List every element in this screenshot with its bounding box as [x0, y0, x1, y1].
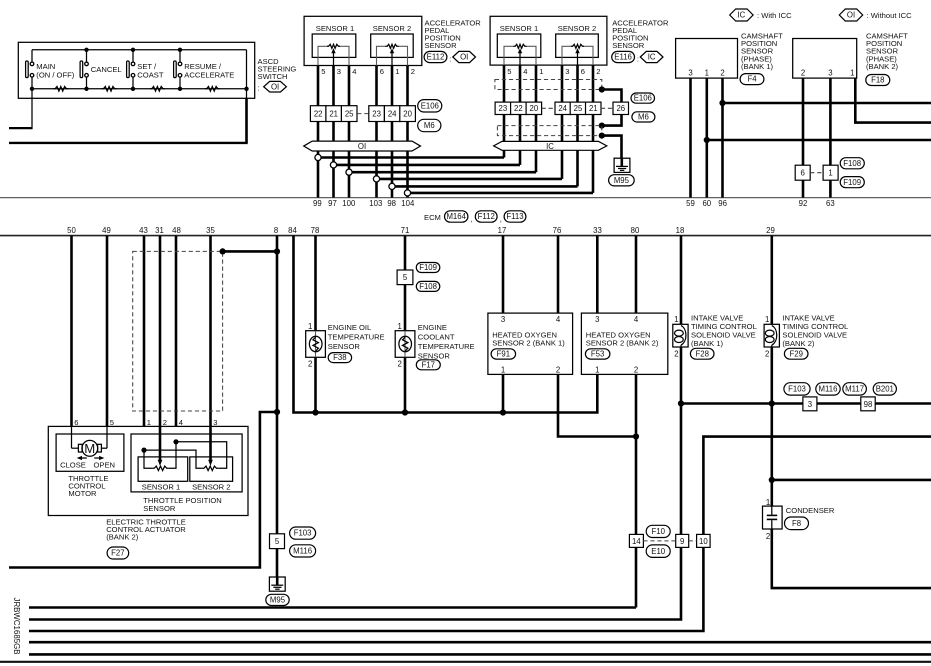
TPS supply wiring pins 1 and 4 [141, 439, 226, 468]
ECM top-row pin numbers [313, 199, 835, 208]
svg-text:25: 25 [574, 104, 583, 113]
wire F53 pin 2 down to stack line [633, 374, 639, 607]
svg-text:5: 5 [403, 273, 408, 282]
svg-text:F103: F103 [788, 385, 806, 394]
ECM upper boundary line [0, 197, 931, 199]
svg-text:1: 1 [395, 67, 399, 76]
svg-text::: : [449, 54, 451, 63]
svg-text:CLOSE: CLOSE [60, 461, 86, 470]
svg-text:OI: OI [847, 11, 855, 20]
F4 oval label [740, 74, 764, 85]
wire from MAIN switch to left edge [9, 89, 32, 129]
svg-text:3: 3 [565, 67, 569, 76]
F53 oval label [585, 349, 610, 359]
TPS sensor 2 box [190, 457, 233, 481]
svg-text:20: 20 [530, 104, 539, 113]
svg-text:F108: F108 [843, 159, 861, 168]
accelerator pedal position sensor E112 box [304, 16, 422, 65]
F109 oval label [416, 263, 440, 273]
ELECTRIC THROTTLE CONTROL ACTUATOR label [106, 517, 186, 541]
wire F4 pin 1 to ECM 60 with branch right [704, 78, 931, 198]
THROTTLE CONTROL MOTOR label [68, 474, 108, 498]
svg-text:48: 48 [172, 226, 181, 235]
svg-text:B201: B201 [876, 385, 894, 394]
potentiometer sensor 1 of E112 (pins 5,3,4) [318, 44, 349, 65]
svg-text:2: 2 [766, 532, 770, 541]
ACCELERATOR PEDAL POSITION SENSOR label (E112) [425, 18, 482, 50]
svg-text:F112: F112 [478, 212, 495, 221]
connector row (E116 side), pins 23 22 20 24 25 21 [495, 102, 613, 114]
svg-text:SENSOR 2 (BANK 2): SENSOR 2 (BANK 2) [586, 338, 659, 347]
E10 oval label [646, 545, 670, 558]
svg-text:2: 2 [556, 366, 560, 375]
svg-text:17: 17 [498, 226, 507, 235]
solenoid return wire to right edge through connectors 3 and 98 [681, 402, 931, 405]
svg-text:103: 103 [369, 199, 382, 208]
legend OI hexagon : Without ICC [839, 9, 912, 21]
svg-text:6: 6 [380, 67, 384, 76]
svg-text:2: 2 [398, 359, 402, 368]
camshaft position sensor (phase) bank 1 box F4 [676, 39, 738, 79]
ECM lower boundary line [0, 235, 931, 237]
svg-text:1: 1 [539, 67, 543, 76]
ground symbol (M95 top) [614, 158, 630, 172]
svg-text:F109: F109 [843, 178, 861, 187]
wire ECM 71 to engine coolant temperature sensor [404, 236, 407, 413]
svg-text:2: 2 [720, 69, 724, 78]
svg-text:1: 1 [828, 169, 832, 178]
svg-text:18: 18 [676, 226, 685, 235]
svg-text:SENSOR 2: SENSOR 2 [192, 482, 230, 491]
connector square pin 26 [613, 102, 629, 114]
svg-text:M164: M164 [446, 212, 466, 221]
wire F18 pin 3 to ECM 63 through connector 1 [829, 78, 832, 198]
RESUME/ACCELERATE switch SW4 [174, 50, 235, 89]
wires ECM 50 49 43 31 48 35 down to throttle actuator [72, 236, 211, 427]
svg-text:CONDENSER: CONDENSER [786, 506, 835, 515]
svg-text:43: 43 [139, 226, 148, 235]
connector square 6 (F108/F109) [795, 165, 810, 180]
svg-text:F29: F29 [789, 349, 802, 358]
engine coolant temperature sensor F17 [395, 322, 415, 368]
svg-text:22: 22 [514, 104, 523, 113]
svg-text:M95: M95 [270, 596, 286, 605]
svg-text:ENGINE OIL: ENGINE OIL [328, 323, 371, 332]
IC hexagon tag for E116 [640, 51, 663, 62]
F8 oval label [785, 517, 809, 530]
wire F4 pin 2 to ECM 96 with branch right [719, 78, 931, 198]
svg-text:M116: M116 [819, 385, 838, 394]
svg-text:2: 2 [765, 350, 769, 359]
ASCD bottom rail wire [32, 88, 247, 90]
wire line from right edge down through connector 10 [703, 437, 931, 535]
svg-text:M6: M6 [424, 121, 435, 130]
svg-text:4: 4 [179, 418, 183, 427]
condenser ground wire to right edge [772, 529, 931, 588]
wire F18 pin 1 going right [855, 78, 931, 123]
svg-text:E106: E106 [421, 101, 439, 110]
TPS sensor 1 resistor [152, 466, 169, 470]
potentiometer sensor 2 of E116 (pins 3,6,2) [562, 44, 593, 65]
dashed link 14-9 [643, 540, 675, 542]
svg-text:OI: OI [271, 82, 279, 91]
CANCEL switch SW2 [80, 50, 122, 89]
wire ECM 18 to intake valve timing solenoid bank1 [678, 236, 684, 535]
camshaft position sensor (phase) bank 2 box F18 [793, 39, 857, 79]
condenser branch to right edge [772, 479, 931, 482]
svg-text:,: , [470, 215, 472, 224]
svg-text:F17: F17 [422, 360, 435, 369]
svg-text:OPEN: OPEN [94, 461, 116, 470]
svg-text:71: 71 [401, 226, 410, 235]
INTAKE VALVE TIMING CONTROL SOLENOID VALVE (BANK 2) label [782, 313, 848, 348]
connector square 14 [629, 534, 643, 547]
svg-text:78: 78 [311, 226, 320, 235]
svg-text:F38: F38 [333, 353, 346, 362]
svg-text:CANCEL: CANCEL [91, 65, 122, 74]
svg-text:3: 3 [595, 315, 599, 324]
sensor 2 sub-box (E116) [556, 34, 599, 57]
svg-text:IC: IC [546, 142, 554, 151]
svg-text:21: 21 [329, 110, 338, 119]
CONDENSER label [786, 506, 835, 515]
svg-text:1: 1 [850, 69, 854, 78]
svg-text:F91: F91 [497, 350, 510, 359]
svg-text:5: 5 [507, 67, 511, 76]
F17 oval label [416, 360, 440, 370]
TPS sensor 1 wiper arrow (pin 2) [158, 426, 163, 466]
svg-text:TEMPERATURE: TEMPERATURE [328, 333, 385, 342]
F27 oval label [107, 547, 129, 559]
connector square 5 (F108/F109) [397, 270, 413, 285]
shield drain wire to ground wire 8 [220, 248, 281, 254]
svg-text:3: 3 [828, 69, 832, 78]
svg-text:1: 1 [308, 322, 312, 331]
svg-text:(BANK 1): (BANK 1) [691, 339, 724, 348]
F108 oval label [840, 158, 864, 169]
svg-text:F28: F28 [695, 349, 708, 358]
F28 oval label [690, 348, 714, 359]
svg-text:5: 5 [110, 418, 114, 427]
svg-text:SENSOR: SENSOR [425, 41, 458, 50]
M6 oval label (E116 side) [632, 112, 655, 122]
full-width stack line A [29, 641, 931, 644]
svg-text:F8: F8 [792, 519, 801, 528]
svg-text:M: M [84, 441, 95, 456]
svg-text:92: 92 [799, 199, 808, 208]
potentiometer sensor 2 of E112 (pins 6,1,2) [377, 44, 408, 65]
svg-text:SENSOR 2: SENSOR 2 [558, 24, 596, 33]
dashed link 9-10 [689, 540, 697, 542]
connector square 9 [676, 534, 689, 547]
svg-text:,: , [500, 215, 502, 224]
ENGINE COOLANT TEMPERATURE SENSOR label [418, 323, 475, 360]
OI harness band arrow [304, 141, 421, 151]
connector square 5 (F103/M116) [270, 534, 285, 549]
svg-text:F4: F4 [747, 75, 757, 84]
throttle control motor box [56, 434, 124, 471]
E106 oval label [418, 100, 442, 112]
svg-text:4: 4 [352, 67, 356, 76]
M117 oval label [843, 383, 867, 395]
F103 oval label (ground) [290, 527, 316, 539]
shield wire from dashed box to pin 26 and back [599, 86, 622, 128]
wires from E116 pins down through IC band [504, 65, 593, 193]
TPS sensor 2 resistor [202, 466, 219, 470]
svg-text:20: 20 [403, 110, 412, 119]
ASCD steering switch outer box [18, 42, 254, 98]
OI hexagon tag for ASCD switch [264, 81, 287, 92]
svg-text:IC: IC [648, 53, 656, 62]
F108 oval label [416, 281, 440, 291]
heated oxygen sensor 2 bank 1 box F91 [488, 313, 573, 375]
svg-text:: Without ICC: : Without ICC [867, 11, 913, 20]
wire stack line from connector 9 [29, 547, 681, 619]
svg-text:M6: M6 [638, 113, 649, 122]
svg-text:F113: F113 [506, 212, 523, 221]
SENSOR 1 / SENSOR 2 labels [142, 482, 231, 491]
stair wires joining IC harness to OI wires [318, 158, 593, 193]
svg-text:ENGINE: ENGINE [418, 323, 447, 332]
E112 connector oval [424, 51, 451, 63]
svg-text:(BANK 2): (BANK 2) [782, 339, 815, 348]
M6 oval label [418, 119, 441, 131]
svg-text:ECM: ECM [424, 213, 441, 222]
svg-text:1: 1 [766, 498, 770, 507]
svg-text:F18: F18 [871, 76, 884, 85]
throttle control motor M [72, 426, 108, 456]
TPS sensor 2 wiper arrow (pin 3) [208, 426, 213, 466]
svg-text:E106: E106 [634, 94, 652, 103]
svg-text:76: 76 [553, 226, 562, 235]
svg-text:80: 80 [631, 226, 640, 235]
svg-text:F103: F103 [294, 529, 312, 538]
F10 oval label [646, 525, 670, 537]
ASCD STEERING SWITCH label [257, 57, 296, 93]
svg-text:SENSOR 2: SENSOR 2 [373, 24, 411, 33]
CAMSHAFT POSITION SENSOR (PHASE)(BANK 2) label [866, 31, 908, 71]
svg-text:F53: F53 [591, 350, 604, 359]
OI hexagon tag for E112 [453, 51, 476, 62]
svg-text:3: 3 [337, 67, 341, 76]
svg-text:1: 1 [674, 315, 678, 324]
svg-text:84: 84 [288, 226, 297, 235]
svg-text:22: 22 [314, 110, 323, 119]
svg-text:8: 8 [274, 226, 278, 235]
wire ECM 80 to HO2S bank2 pin 4 [635, 236, 638, 314]
shielded-harness dashed box upper (E116) [495, 80, 602, 90]
svg-text:3: 3 [688, 69, 692, 78]
sensor 2 sub-box (E112) [371, 34, 414, 57]
svg-text:25: 25 [345, 110, 354, 119]
wire F91 pin 1 to sensor ground bus [502, 374, 505, 412]
heated oxygen sensor 2 bank 2 box F53 [581, 313, 667, 375]
svg-text:F109: F109 [419, 263, 437, 272]
wire from ASCD switch right side to left edge [9, 50, 248, 143]
svg-text:2: 2 [674, 350, 678, 359]
INTAKE VALVE TIMING CONTROL SOLENOID VALVE (BANK 1) label [691, 313, 757, 348]
shield drain wire to ground [599, 133, 622, 159]
svg-text:60: 60 [702, 199, 711, 208]
svg-text:3: 3 [808, 400, 812, 409]
E116 pin number labels 5 4 1 3 6 2 [507, 67, 600, 76]
svg-text:4: 4 [634, 315, 639, 324]
connector square 3 [803, 397, 817, 411]
ground symbol (M95 bottom) [269, 577, 285, 591]
svg-text:E10: E10 [651, 547, 666, 556]
M95 oval label (bottom) [266, 594, 289, 605]
ECM bottom-row pin numbers [67, 226, 775, 235]
accelerator pedal position sensor E116 box [490, 16, 607, 65]
svg-text:M95: M95 [614, 176, 630, 185]
CAMSHAFT POSITION SENSOR (PHASE)(BANK 1) label [741, 31, 783, 71]
wire ECM 76 to HO2S bank1 pin 4 [557, 236, 560, 314]
wire to body ground [276, 549, 279, 578]
svg-text:SENSOR: SENSOR [328, 342, 361, 351]
E112 pin number labels 5 3 4 6 1 2 [321, 67, 415, 76]
svg-text:2: 2 [308, 359, 312, 368]
svg-text:24: 24 [558, 104, 567, 113]
svg-text:96: 96 [718, 199, 727, 208]
connector square 98 [861, 397, 875, 411]
wire ECM 17 to HO2S bank1 pin 3 [502, 236, 505, 314]
svg-text:OI: OI [460, 53, 468, 62]
F29 oval label [784, 348, 808, 359]
svg-text:97: 97 [328, 199, 337, 208]
ASCD top rail junction dots [84, 48, 182, 52]
ENGINE OIL TEMPERATURE SENSOR label [328, 323, 385, 351]
svg-text:(ON / OFF): (ON / OFF) [36, 70, 74, 79]
svg-text:2: 2 [596, 67, 600, 76]
CLOSE OPEN labels [60, 461, 115, 470]
connector square 10 [697, 534, 711, 547]
F27 pin labels 6 5 1 2 4 3 [74, 418, 217, 427]
svg-text:SWITCH: SWITCH [258, 72, 288, 81]
svg-text:99: 99 [313, 199, 322, 208]
svg-text:SENSOR 1: SENSOR 1 [142, 482, 180, 491]
ACCELERATOR PEDAL POSITION SENSOR label (E116) [612, 18, 669, 50]
svg-text:(BANK 1): (BANK 1) [741, 62, 774, 71]
B201 oval label [873, 383, 896, 395]
M116 oval label (ground) [290, 545, 316, 557]
svg-text:JRBWC1685GB: JRBWC1685GB [12, 598, 21, 655]
svg-text:6: 6 [801, 169, 805, 178]
sensor 1 sub-box (E116) [497, 34, 541, 57]
E106 oval label (E116 side) [631, 93, 655, 103]
svg-text:: With ICC: : With ICC [757, 11, 792, 20]
MAIN switch SW1 [26, 50, 75, 89]
intake valve timing control solenoid valve bank2 F29 [764, 315, 779, 359]
ASCD top rail wire [32, 49, 247, 51]
dashed link between squares 6 and 1 [810, 172, 823, 174]
F18 oval label [866, 75, 890, 86]
svg-text:9: 9 [680, 537, 684, 546]
svg-text:(BANK 2): (BANK 2) [866, 62, 899, 71]
svg-text:35: 35 [206, 226, 215, 235]
svg-text:49: 49 [102, 226, 111, 235]
svg-text:23: 23 [499, 104, 508, 113]
svg-text:98: 98 [387, 199, 396, 208]
wire ECM 33 to HO2S bank2 pin 3 [596, 236, 599, 314]
svg-text:3: 3 [213, 418, 217, 427]
potentiometer sensor 1 of E116 (pins 5,4,1) [504, 44, 536, 65]
svg-text:26: 26 [616, 104, 625, 113]
wire F4 pin 3 to ECM 59 [689, 78, 692, 198]
svg-text:33: 33 [593, 226, 602, 235]
svg-text:10: 10 [699, 537, 708, 546]
ground branch wire to left edge [9, 412, 277, 568]
condenser F8 [763, 498, 783, 541]
resistor R4 in ASCD switch [205, 87, 220, 92]
IC harness band arrow [494, 141, 607, 150]
sensor ground bus from ECM 84 [294, 236, 598, 416]
resistor R3 in ASCD switch [150, 87, 165, 92]
svg-text:MOTOR: MOTOR [68, 489, 97, 498]
connector square 1 (F108/F109) [823, 165, 838, 180]
svg-text:1: 1 [595, 366, 599, 375]
svg-text:5: 5 [275, 537, 280, 546]
svg-text:24: 24 [388, 110, 397, 119]
close/open arrows [77, 456, 105, 460]
resistor R2 in ASCD switch [102, 87, 117, 92]
svg-text:29: 29 [766, 226, 775, 235]
resistor R1 in ASCD switch [53, 87, 68, 92]
shielded dashed box around throttle position sensor wires [133, 251, 223, 411]
svg-text:6: 6 [74, 418, 78, 427]
SET/COAST switch SW3 [127, 50, 164, 89]
svg-text:5: 5 [321, 67, 325, 76]
svg-text:31: 31 [155, 226, 164, 235]
svg-text:F10: F10 [651, 527, 665, 536]
svg-text:14: 14 [632, 537, 641, 546]
wire stack line from F53 pin 2 [29, 606, 636, 609]
svg-text:SENSOR: SENSOR [612, 41, 645, 50]
harness connector row E106/M6 (E112 side), pins 22 21 25 23 24 20 [310, 106, 415, 122]
F91 oval label [491, 349, 515, 359]
ASCD bottom rail junction dots [30, 87, 249, 91]
svg-text:(BANK 2): (BANK 2) [106, 533, 139, 542]
wire ECM 29 to intake valve timing solenoid bank2 [769, 236, 775, 507]
svg-text:2: 2 [801, 69, 805, 78]
svg-text:6: 6 [581, 67, 585, 76]
svg-text:1: 1 [501, 366, 505, 375]
svg-text:2: 2 [411, 67, 415, 76]
svg-text:4: 4 [523, 67, 527, 76]
svg-text:F108: F108 [419, 282, 437, 291]
svg-text:1: 1 [705, 69, 709, 78]
svg-text:1: 1 [147, 418, 151, 427]
legend IC hexagon : With ICC [730, 9, 792, 21]
svg-text:COOLANT: COOLANT [418, 333, 455, 342]
svg-text:1: 1 [765, 315, 769, 324]
svg-text:4: 4 [556, 315, 561, 324]
M95 oval label (top) [609, 175, 635, 186]
svg-text:E116: E116 [614, 53, 632, 62]
svg-text:SENSOR: SENSOR [143, 504, 176, 513]
F109 oval label [840, 177, 864, 188]
bottom border line [0, 661, 931, 663]
sensor 1 sub-box (E112) [312, 34, 356, 57]
svg-text:M116: M116 [293, 547, 312, 556]
THROTTLE POSITION SENSOR label [143, 496, 221, 513]
svg-text:TEMPERATURE: TEMPERATURE [418, 342, 475, 351]
svg-text:IC: IC [737, 11, 745, 20]
F103 oval label [784, 383, 810, 395]
svg-text:OI: OI [358, 142, 366, 151]
svg-text:63: 63 [826, 199, 835, 208]
electric throttle control actuator outer box F27 [48, 426, 248, 515]
wire F91 pin 2 to joint [558, 374, 636, 436]
